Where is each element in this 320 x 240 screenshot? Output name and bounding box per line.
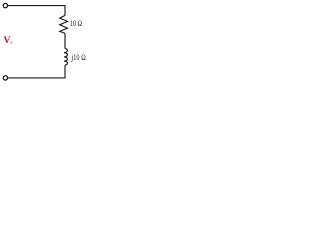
terminal (top, open circle)	[3, 3, 7, 7]
resistor 10 ohm	[60, 15, 68, 33]
svg-text:Vs: Vs	[4, 35, 14, 46]
wire bottom horizontal	[8, 77, 65, 79]
svg-text:j10Ω: j10Ω	[71, 52, 86, 62]
wire right upper stub	[64, 5, 66, 15]
wire top horizontal	[8, 5, 65, 7]
wire between resistor and inductor	[64, 33, 66, 48]
wire right lower stub	[64, 65, 66, 78]
inductor j10 ohm (coil)	[64, 49, 67, 66]
terminal (bottom, open circle)	[3, 76, 7, 80]
svg-text:10Ω: 10Ω	[70, 19, 82, 28]
